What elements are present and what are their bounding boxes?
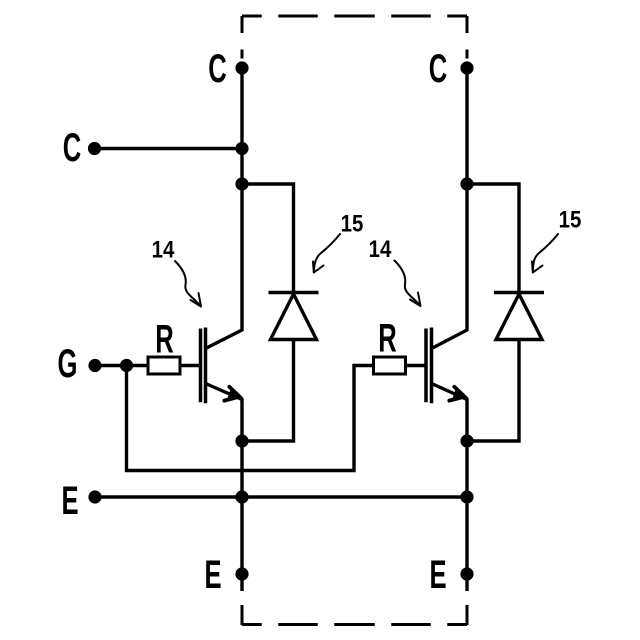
svg-text:14: 14 [369,235,392,262]
svg-text:R: R [378,317,396,361]
svg-text:E: E [61,479,78,523]
svg-text:C: C [63,126,81,170]
svg-text:C: C [208,47,226,91]
svg-text:14: 14 [152,236,175,263]
svg-text:C: C [429,47,447,91]
svg-text:G: G [58,342,78,386]
svg-text:E: E [429,553,446,597]
svg-text:15: 15 [559,206,582,233]
svg-text:E: E [204,553,221,597]
svg-text:R: R [155,318,173,362]
svg-text:15: 15 [341,210,364,237]
